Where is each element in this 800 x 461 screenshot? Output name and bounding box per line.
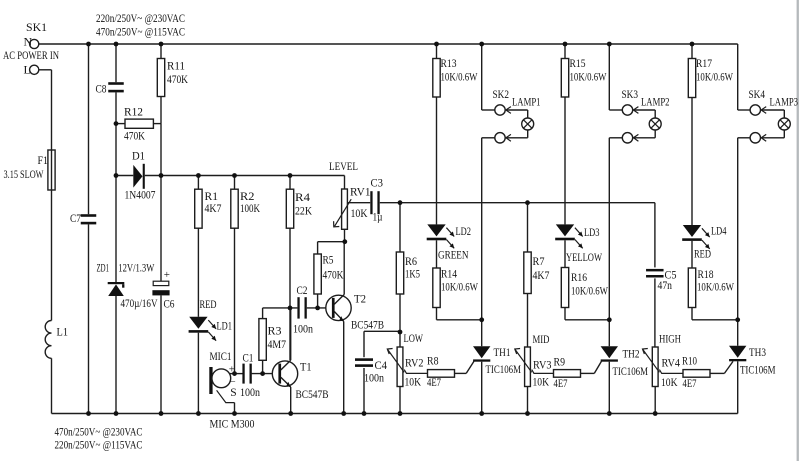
svg-text:4E7: 4E7 <box>427 375 441 389</box>
svg-text:10K: 10K <box>661 375 678 389</box>
svg-text:C2: C2 <box>297 283 308 297</box>
svg-text:BC547B: BC547B <box>296 387 329 401</box>
svg-text:SK3: SK3 <box>622 87 639 101</box>
svg-text:1N4007: 1N4007 <box>125 188 156 202</box>
svg-text:47n: 47n <box>658 278 673 292</box>
svg-text:D1: D1 <box>132 149 145 163</box>
svg-text:470K: 470K <box>167 72 188 86</box>
svg-text:RV2: RV2 <box>405 356 424 370</box>
svg-text:1µ: 1µ <box>373 210 383 224</box>
svg-text:TIC106M: TIC106M <box>486 362 522 376</box>
svg-text:RED: RED <box>694 247 711 261</box>
svg-text:470K: 470K <box>124 129 145 143</box>
svg-text:10K: 10K <box>533 375 550 389</box>
svg-text:R15: R15 <box>570 56 586 70</box>
svg-text:L1: L1 <box>57 325 69 339</box>
svg-text:TIC106M: TIC106M <box>740 363 776 377</box>
svg-text:HIGH: HIGH <box>659 332 681 346</box>
svg-text:+: + <box>164 269 170 281</box>
svg-text:LD1: LD1 <box>217 319 233 333</box>
svg-text:ZD1: ZD1 <box>97 261 110 275</box>
svg-text:TIC106M: TIC106M <box>613 364 649 378</box>
svg-text:4E7: 4E7 <box>683 376 697 390</box>
svg-text:T2: T2 <box>354 292 366 306</box>
svg-text:4K7: 4K7 <box>533 268 550 282</box>
svg-text:10K/0.6W: 10K/0.6W <box>441 280 478 294</box>
svg-text:TH1: TH1 <box>494 345 511 359</box>
svg-text:C6: C6 <box>164 297 175 311</box>
svg-text:470n/250V~ @115VAC: 470n/250V~ @115VAC <box>96 25 185 39</box>
svg-text:LD3: LD3 <box>584 225 600 239</box>
svg-text:R4: R4 <box>295 190 310 204</box>
svg-text:SK4: SK4 <box>749 87 766 101</box>
svg-text:10K: 10K <box>351 206 368 220</box>
svg-text:TH2: TH2 <box>623 347 640 361</box>
svg-text:C7: C7 <box>70 211 81 225</box>
svg-text:GREEN: GREEN <box>438 248 469 262</box>
svg-text:R10: R10 <box>682 354 697 368</box>
svg-text:R12: R12 <box>124 105 143 119</box>
svg-text:10K/0.6W: 10K/0.6W <box>570 69 607 83</box>
svg-text:100n: 100n <box>293 322 313 336</box>
svg-text:LEVEL: LEVEL <box>329 159 358 173</box>
svg-text:S: S <box>230 387 236 399</box>
svg-text:22K: 22K <box>295 204 312 218</box>
svg-text:10K/0.6W: 10K/0.6W <box>571 284 608 298</box>
svg-text:LAMP3: LAMP3 <box>770 95 799 109</box>
svg-text:LAMP2: LAMP2 <box>641 95 670 109</box>
svg-text:TH3: TH3 <box>749 345 766 359</box>
svg-text:4E7: 4E7 <box>554 376 568 390</box>
svg-text:R14: R14 <box>441 267 457 281</box>
svg-text:100n: 100n <box>240 385 260 399</box>
svg-text:470K: 470K <box>323 268 344 282</box>
svg-text:R3: R3 <box>268 324 282 338</box>
svg-text:C8: C8 <box>96 82 107 96</box>
svg-text:LD4: LD4 <box>711 224 727 238</box>
svg-text:SK2: SK2 <box>493 87 510 101</box>
svg-text:R13: R13 <box>441 56 457 70</box>
svg-text:+: + <box>229 363 235 375</box>
svg-text:4K7: 4K7 <box>205 201 222 215</box>
svg-text:C1: C1 <box>243 351 254 365</box>
svg-text:10K/0.6W: 10K/0.6W <box>697 280 734 294</box>
svg-text:10K/0.6W: 10K/0.6W <box>696 69 733 83</box>
svg-text:R9: R9 <box>554 355 566 369</box>
svg-text:C3: C3 <box>371 176 384 190</box>
svg-text:LOW: LOW <box>404 331 424 345</box>
svg-text:220n/250V~ @230VAC: 220n/250V~ @230VAC <box>96 11 185 25</box>
svg-text:LD2: LD2 <box>456 224 472 238</box>
svg-text:MIC M300: MIC M300 <box>210 417 255 431</box>
svg-text:R16: R16 <box>571 270 587 284</box>
svg-text:F1: F1 <box>38 153 49 167</box>
svg-text:N: N <box>24 35 33 49</box>
svg-text:R17: R17 <box>696 56 712 70</box>
svg-text:BC547B: BC547B <box>351 318 384 332</box>
svg-text:RV4: RV4 <box>662 356 681 370</box>
svg-text:1K5: 1K5 <box>405 267 420 281</box>
svg-text:R7: R7 <box>533 254 545 268</box>
svg-text:10K: 10K <box>405 375 422 389</box>
svg-text:10K/0.6W: 10K/0.6W <box>441 69 478 83</box>
svg-text:R8: R8 <box>427 354 439 368</box>
svg-text:100n: 100n <box>364 371 384 385</box>
svg-text:YELLOW: YELLOW <box>566 250 602 264</box>
svg-text:220n/250V~ @115VAC: 220n/250V~ @115VAC <box>55 438 143 452</box>
svg-text:12V/1.3W: 12V/1.3W <box>118 261 154 275</box>
svg-text:LAMP1: LAMP1 <box>512 95 541 109</box>
svg-text:MID: MID <box>533 332 550 346</box>
svg-text:4M7: 4M7 <box>268 337 287 351</box>
svg-text:MIC1: MIC1 <box>210 349 232 363</box>
svg-text:3.15 SLOW: 3.15 SLOW <box>4 167 44 181</box>
svg-text:AC POWER IN: AC POWER IN <box>3 48 59 62</box>
svg-text:RV3: RV3 <box>533 358 552 372</box>
svg-text:L: L <box>24 63 31 77</box>
svg-text:T1: T1 <box>300 360 312 374</box>
svg-text:SK1: SK1 <box>26 20 47 34</box>
svg-text:100K: 100K <box>240 201 260 215</box>
svg-text:R11: R11 <box>167 59 185 73</box>
svg-text:R5: R5 <box>323 253 334 267</box>
svg-text:470n/250V~ @230VAC: 470n/250V~ @230VAC <box>55 425 143 439</box>
svg-text:470µ/16V: 470µ/16V <box>121 296 158 310</box>
svg-text:RED: RED <box>200 297 217 311</box>
svg-text:RV1: RV1 <box>350 185 371 199</box>
